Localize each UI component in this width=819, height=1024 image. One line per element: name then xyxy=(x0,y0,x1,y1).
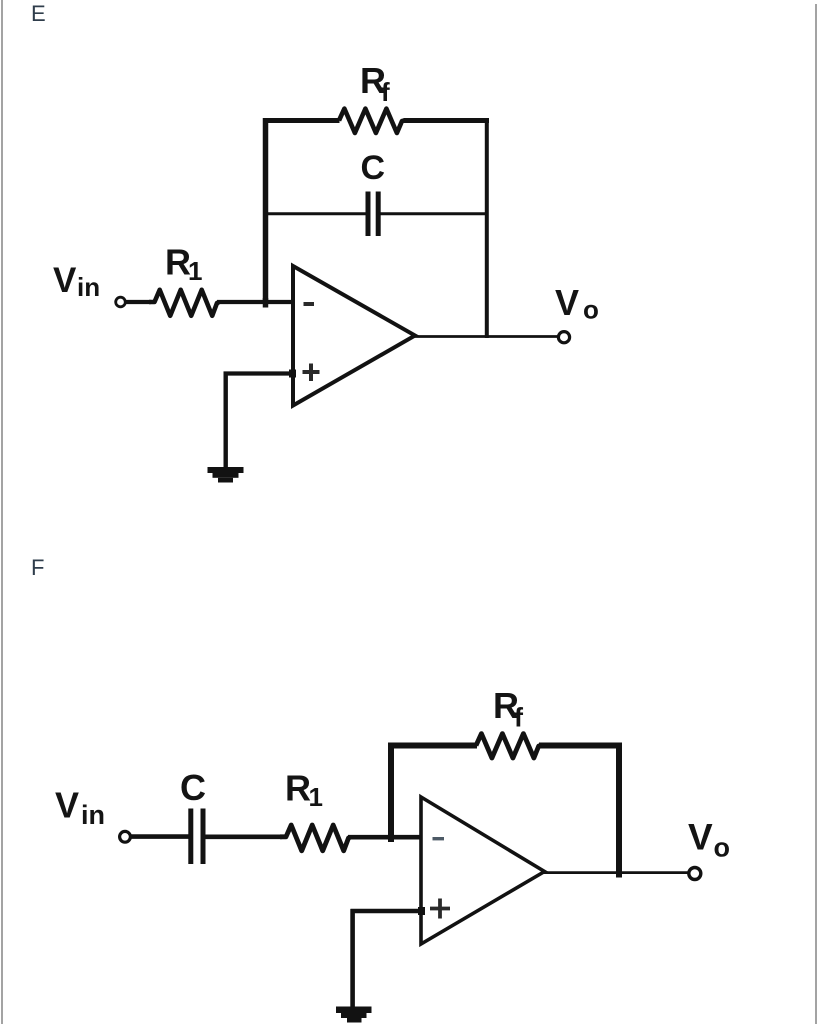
resistor Rf (F) xyxy=(476,734,541,758)
svg-text:V: V xyxy=(688,817,713,858)
svg-text:f: f xyxy=(381,77,390,107)
left table cell border xyxy=(1,0,3,1024)
wire feedback top branch left (E) xyxy=(263,118,340,123)
wire Vin terminal to capacitor (F) xyxy=(131,834,189,839)
value label C (F) xyxy=(180,767,206,808)
wire feedback right column (F) xyxy=(616,743,622,878)
wire non-inverting input (E) xyxy=(224,371,294,375)
capacitor C (E) xyxy=(368,192,378,237)
pin label plus (F) xyxy=(430,899,450,919)
wire feedback left column (E) xyxy=(263,118,269,302)
wire output (E) xyxy=(414,335,558,338)
svg-text:C: C xyxy=(361,149,386,187)
input terminal (F) xyxy=(120,831,131,842)
option label F xyxy=(31,557,44,579)
node Vin label (F) xyxy=(55,785,105,831)
resistor Rf (E) xyxy=(339,109,405,133)
node junction input / feedback (F) xyxy=(388,833,394,842)
wire feedback left column (F) xyxy=(388,743,394,838)
output terminal (E) xyxy=(558,332,569,343)
svg-text:o: o xyxy=(714,833,731,863)
wire feedback top branch right (F) xyxy=(539,743,622,749)
value label Rf (E) xyxy=(360,60,390,107)
pin label minus (E) xyxy=(304,302,315,306)
wire ground drop (E) xyxy=(223,372,227,469)
wire feedback right column (E) xyxy=(485,118,489,338)
wire feedback top branch right (E) xyxy=(404,118,490,123)
svg-text:V: V xyxy=(53,261,77,300)
svg-text:R: R xyxy=(285,768,311,809)
value label R1 (F) xyxy=(285,768,323,813)
value label Rf (F) xyxy=(493,685,524,733)
ground (F) xyxy=(336,1007,372,1023)
wire output (F) xyxy=(543,871,689,874)
node Vo label (F) xyxy=(688,817,730,863)
svg-text:V: V xyxy=(555,282,579,323)
svg-text:in: in xyxy=(77,272,100,302)
svg-text:in: in xyxy=(81,800,105,830)
pin label minus (F) xyxy=(433,837,445,840)
svg-text:f: f xyxy=(514,703,524,733)
svg-text:C: C xyxy=(180,767,206,808)
svg-text:1: 1 xyxy=(309,782,323,812)
resistor R1 (F) xyxy=(280,825,350,851)
wire capacitor to R1 (F) xyxy=(206,834,283,839)
node junction input / feedback (E) xyxy=(263,298,269,308)
node Vin label (E) xyxy=(53,261,100,302)
capacitor C (F) xyxy=(191,809,203,865)
wire capacitor branch right (E) xyxy=(381,212,489,215)
node junction non-inverting pin (F) xyxy=(418,907,425,915)
wire feedback top branch left (F) xyxy=(388,743,477,749)
wire ground drop (F) xyxy=(350,909,355,1007)
node junction non-inverting pin (E) xyxy=(289,370,296,378)
value label C (E) xyxy=(361,149,386,187)
input terminal (E) xyxy=(116,297,126,307)
value label R1 (E) xyxy=(165,242,202,287)
pin label plus (E) xyxy=(303,364,320,382)
op-amp U1 (E) xyxy=(293,266,415,406)
wire R1 to inverting input node (F) xyxy=(348,835,422,840)
option label E xyxy=(31,3,46,25)
svg-text:1: 1 xyxy=(188,256,202,286)
output terminal (F) xyxy=(689,868,701,880)
wire non-inverting input (F) xyxy=(351,909,423,914)
wire capacitor branch left (E) xyxy=(263,212,366,215)
wire R1 to inverting input node (E) xyxy=(217,300,293,304)
node Vo label (E) xyxy=(555,282,599,325)
right table cell border xyxy=(815,4,817,1024)
op-amp U2 (F) xyxy=(421,797,545,944)
wire Vin terminal to R1 (E) xyxy=(126,300,152,304)
svg-text:o: o xyxy=(583,295,599,325)
ground (E) xyxy=(208,467,244,483)
resistor R1 (E) xyxy=(149,290,219,316)
svg-text:V: V xyxy=(55,785,79,826)
